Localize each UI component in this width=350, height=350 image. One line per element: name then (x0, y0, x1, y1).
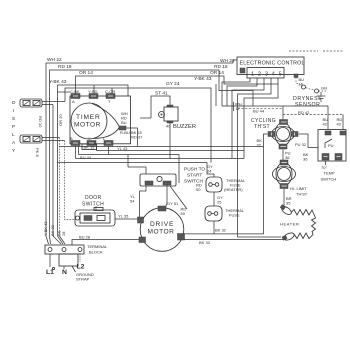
svg-text:P: P (12, 124, 15, 130)
svg-text:35: 35 (286, 201, 291, 206)
svg-text:HEATER: HEATER (280, 222, 300, 227)
svg-text:DOOR: DOOR (85, 195, 102, 201)
buzzer LS1 (159, 105, 197, 159)
svg-text:Y-RD: Y-RD (88, 89, 98, 94)
svg-text:SENSOR: SENSOR (295, 102, 321, 108)
wire GY 24 (65, 81, 213, 174)
door switch S1 (75, 195, 115, 226)
svg-text:BK 15: BK 15 (84, 145, 96, 150)
svg-text:12345: 12345 (251, 72, 286, 78)
wire BU 44 right section (222, 106, 328, 130)
hi-limit thermostat S5 (273, 160, 308, 197)
svg-text:BU 28: BU 28 (79, 235, 91, 240)
svg-text:BLOCK: BLOCK (89, 250, 103, 255)
svg-text:(HEATER): (HEATER) (224, 187, 243, 192)
wires fan into terminal block (46, 236, 65, 244)
wire GY 41 buzzer feed (140, 91, 170, 119)
wire console run y163.5 (58, 146, 215, 174)
drive motor B2 (138, 201, 187, 251)
wire L2 (77, 254, 85, 271)
wire GY 25 (214, 192, 223, 206)
svg-text:70°: 70° (321, 165, 327, 170)
svg-text:BU: BU (121, 120, 127, 125)
svg-text:C-BK: C-BK (70, 89, 80, 94)
svg-text:YL 43: YL 43 (117, 146, 128, 151)
svg-text:42: 42 (323, 122, 328, 127)
svg-text:DRIVE: DRIVE (150, 221, 174, 228)
svg-text:C-OR: C-OR (105, 89, 115, 94)
svg-text:OR 14: OR 14 (79, 70, 93, 76)
ground strap (59, 254, 94, 282)
svg-text:BK 32: BK 32 (215, 228, 227, 233)
svg-text:TH'ST: TH'ST (254, 124, 270, 130)
svg-text:ST 41: ST 41 (155, 91, 168, 97)
svg-text:24: 24 (207, 169, 212, 174)
svg-text:WH 22: WH 22 (47, 57, 62, 63)
svg-text:Y-BK 43: Y-BK 43 (49, 79, 67, 85)
svg-text:HI- LIMIT: HI- LIMIT (290, 186, 307, 191)
svg-text:RD 18: RD 18 (58, 64, 72, 70)
svg-text:TIMER: TIMER (76, 114, 101, 121)
svg-text:OR 14: OR 14 (210, 70, 224, 76)
wire BU 28 (72, 235, 139, 246)
svg-text:BU 44: BU 44 (80, 155, 92, 160)
svg-text:54: 54 (130, 199, 135, 204)
svg-text:ELECTRONIC CONTROL: ELECTRONIC CONTROL (240, 61, 305, 67)
svg-text:50: 50 (196, 187, 201, 192)
svg-text:PK 8: PK 8 (35, 148, 40, 157)
svg-text:28: 28 (61, 231, 66, 236)
svg-text:MOTOR: MOTOR (148, 229, 175, 236)
svg-text:PU 32: PU 32 (295, 142, 307, 147)
svg-text:32: 32 (257, 143, 262, 148)
left bundle rotated labels (43, 221, 66, 236)
svg-text:36: 36 (285, 155, 290, 160)
electronic control U1 (237, 57, 305, 78)
timer motor B1 (58, 92, 131, 144)
wire BU 44 run (97, 78, 279, 159)
wires control terminal drops (222, 78, 281, 237)
temp switch S4 (303, 130, 346, 182)
wire console run y160 (76, 146, 245, 159)
timer top terminals (70, 89, 115, 104)
svg-text:MOTOR: MOTOR (74, 122, 101, 129)
wire display leads (35, 102, 65, 158)
terminal block TB1 (45, 244, 108, 255)
svg-text:Y-BK 43: Y-BK 43 (194, 76, 212, 82)
wires switch to motor (130, 185, 187, 217)
svg-text:RD 18: RD 18 (214, 64, 228, 70)
display U2 (12, 99, 42, 154)
wire PU 32 cycling to temp switch (295, 134, 318, 148)
wire PU 36 cycling to hi-limit (283, 150, 291, 162)
timer bottom terminals (70, 136, 113, 146)
svg-text:GY 51: GY 51 (167, 201, 179, 206)
svg-text:50: 50 (181, 211, 186, 216)
svg-text:Y-BK 43: Y-BK 43 (43, 221, 48, 236)
svg-text:42: 42 (337, 122, 342, 127)
svg-text:PU: PU (328, 143, 334, 148)
svg-text:BK 22: BK 22 (50, 224, 55, 236)
svg-text:A: A (72, 99, 75, 104)
wire BK 33 motor to heater (184, 240, 283, 246)
svg-text:L2: L2 (77, 264, 85, 271)
svg-text:D: D (12, 100, 16, 106)
svg-text:S: S (12, 116, 15, 122)
thermal fuse F2 (205, 206, 245, 234)
svg-text:N: N (62, 269, 67, 276)
svg-text:TEMP: TEMP (324, 171, 335, 176)
svg-text:RD 42: RD 42 (298, 110, 310, 115)
wire BK 15 (59, 144, 264, 150)
wire YL 35 door to motor (115, 214, 138, 220)
wire OR 14 bus (76, 70, 279, 106)
heater E1 (280, 205, 316, 242)
svg-text:36: 36 (303, 157, 308, 162)
timer right side labels (119, 111, 143, 147)
wire RD 18 bus (50, 64, 254, 236)
wire Y-BK 43 bus (49, 76, 212, 236)
svg-text:L1: L1 (46, 269, 54, 276)
svg-text:BU 44: BU 44 (253, 109, 265, 114)
wire BK 32 cycling to motor (185, 134, 268, 234)
svg-text:YL 35: YL 35 (118, 214, 129, 219)
svg-text:Y: Y (88, 136, 91, 141)
wire N (62, 266, 67, 276)
svg-text:GN: GN (321, 86, 327, 91)
wire RD 42 to temp switch (283, 106, 343, 130)
svg-text:R-BU: R-BU (120, 130, 130, 135)
wire WH 22 top bus (46, 57, 237, 236)
dryness sensor (293, 74, 327, 108)
svg-text:PUSH TO: PUSH TO (184, 167, 205, 173)
svg-text:STRAP: STRAP (76, 277, 90, 282)
svg-text:SWITCH: SWITCH (82, 202, 104, 208)
svg-text:B: B (70, 136, 73, 141)
cycling thermostat S3 (251, 118, 298, 149)
svg-text:SWITCH: SWITCH (321, 177, 337, 182)
svg-text:40: 40 (166, 124, 171, 129)
svg-text:FUSE: FUSE (229, 213, 240, 218)
ground symbol dryness (317, 92, 326, 101)
svg-text:TH'ST: TH'ST (296, 192, 308, 197)
wire YL 43 run (79, 146, 180, 183)
svg-text:RD 10: RD 10 (38, 116, 43, 128)
svg-text:WH 22: WH 22 (220, 58, 235, 64)
svg-text:25: 25 (217, 200, 222, 205)
wire L1 (46, 254, 55, 276)
svg-text:START: START (187, 173, 202, 179)
svg-text:RD 37: RD 37 (131, 135, 143, 140)
svg-text:GY 24: GY 24 (166, 81, 180, 87)
wires dashed top right (289, 50, 344, 52)
svg-text:BK 33: BK 33 (199, 240, 211, 245)
svg-text:BUZZER: BUZZER (173, 124, 196, 130)
node left bundle verticals (53, 105, 75, 237)
svg-text:OR 20: OR 20 (58, 114, 63, 126)
svg-text:TERMINAL: TERMINAL (87, 244, 108, 249)
thermal fuse (heater) F1 (206, 174, 246, 192)
wire BR 35 hi-limit to heater (284, 189, 292, 206)
push to start switch S2 (128, 155, 205, 193)
svg-text:L: L (12, 132, 15, 138)
svg-text:16: 16 (299, 82, 304, 87)
svg-text:I: I (13, 108, 14, 114)
